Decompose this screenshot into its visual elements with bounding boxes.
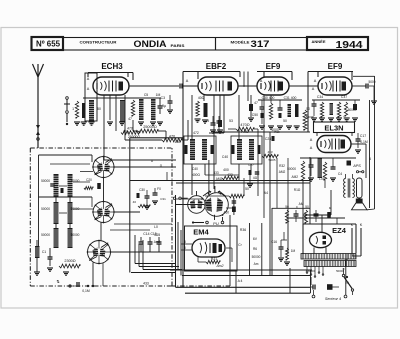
- svg-text:EF9: EF9: [266, 62, 281, 71]
- svg-text:50000: 50000: [348, 108, 357, 112]
- svg-text:50000: 50000: [71, 179, 80, 183]
- svg-text:A4: A4: [264, 191, 268, 195]
- svg-text:C50: C50: [252, 113, 258, 117]
- svg-text:A: A: [87, 77, 90, 81]
- svg-text:50000: 50000: [252, 255, 261, 259]
- svg-text:AM2: AM2: [291, 175, 298, 179]
- svg-text:50000: 50000: [41, 179, 50, 183]
- svg-text:2300Ω: 2300Ω: [64, 259, 75, 263]
- svg-text:R21: R21: [211, 257, 217, 261]
- svg-text:A: A: [260, 79, 263, 83]
- svg-text:EM4: EM4: [193, 228, 209, 237]
- svg-text:C20: C20: [86, 178, 92, 182]
- svg-text:472: 472: [193, 131, 199, 135]
- svg-text:50000: 50000: [287, 167, 296, 171]
- svg-text:9µ: 9µ: [162, 104, 166, 108]
- svg-text:1M: 1M: [291, 249, 296, 253]
- svg-text:C5: C5: [144, 93, 148, 97]
- svg-text:470Ω: 470Ω: [240, 123, 249, 127]
- svg-text:C4: C4: [338, 172, 342, 176]
- svg-text:50000: 50000: [41, 233, 50, 237]
- svg-text:Secteur 4: Secteur 4: [325, 297, 341, 301]
- svg-text:40: 40: [133, 200, 137, 204]
- svg-text:PU: PU: [213, 221, 219, 226]
- svg-text:C30 400: C30 400: [262, 96, 275, 100]
- svg-text:A: A: [310, 138, 313, 142]
- svg-text:PARIS: PARIS: [171, 44, 186, 48]
- svg-text:EL3N: EL3N: [324, 124, 343, 133]
- svg-text:ANNÉE: ANNÉE: [312, 39, 326, 44]
- svg-text:C31 400: C31 400: [284, 96, 297, 100]
- svg-text:C1: C1: [42, 250, 46, 254]
- svg-text:50000: 50000: [41, 207, 50, 211]
- svg-text:433: 433: [143, 282, 149, 286]
- svg-text:A: A: [310, 146, 313, 150]
- svg-text:CONSTRUCTEUR: CONSTRUCTEUR: [80, 41, 117, 45]
- svg-text:108: 108: [174, 140, 180, 144]
- svg-text:R36: R36: [240, 228, 246, 232]
- svg-text:53: 53: [205, 119, 209, 123]
- svg-text:C40: C40: [222, 155, 228, 159]
- svg-text:F0: F0: [157, 187, 161, 191]
- svg-text:20µ: 20µ: [123, 130, 129, 134]
- svg-text:R1Ω: R1Ω: [294, 188, 301, 192]
- svg-text:A 4: A 4: [238, 279, 243, 283]
- svg-text:433: 433: [227, 173, 233, 177]
- svg-text:C16: C16: [271, 240, 277, 244]
- svg-text:A: A: [312, 87, 315, 91]
- svg-text:50000: 50000: [71, 233, 80, 237]
- svg-text:AM2: AM2: [279, 170, 286, 174]
- svg-text:C37: C37: [341, 95, 347, 99]
- svg-text:A: A: [186, 79, 189, 83]
- svg-text:47: 47: [128, 117, 132, 121]
- svg-text:400: 400: [223, 168, 229, 172]
- svg-text:ECH3: ECH3: [101, 62, 123, 71]
- svg-text:6V: 6V: [253, 237, 258, 241]
- svg-text:25000Ω: 25000Ω: [143, 125, 157, 129]
- svg-text:Am: Am: [254, 262, 259, 266]
- svg-text:C17: C17: [360, 134, 366, 138]
- svg-text:4Ω: 4Ω: [253, 176, 258, 180]
- svg-text:1944: 1944: [336, 40, 364, 51]
- svg-text:MODÈLE: MODÈLE: [231, 40, 251, 45]
- svg-text:C34: C34: [317, 95, 323, 99]
- svg-text:EZ4: EZ4: [332, 226, 347, 235]
- svg-text:50: 50: [283, 119, 287, 123]
- svg-text:C31: C31: [160, 197, 166, 201]
- svg-text:R32: R32: [279, 164, 285, 168]
- svg-text:50: 50: [306, 107, 310, 111]
- svg-text:317: 317: [251, 39, 270, 50]
- svg-text:C3: C3: [161, 96, 165, 100]
- svg-text:K: K: [360, 223, 363, 227]
- svg-text:450: 450: [224, 211, 230, 215]
- svg-text:Am2: Am2: [154, 240, 161, 244]
- svg-text:47: 47: [254, 101, 258, 105]
- svg-text:Nº 655: Nº 655: [36, 39, 60, 49]
- svg-text:40Ω: 40Ω: [198, 96, 205, 100]
- svg-text:50: 50: [97, 107, 101, 111]
- svg-text:50: 50: [305, 205, 309, 209]
- svg-text:EF9: EF9: [328, 62, 343, 71]
- svg-text:Am2: Am2: [216, 264, 224, 268]
- svg-text:400Ω: 400Ω: [192, 173, 200, 177]
- svg-text:C30: C30: [139, 188, 145, 192]
- svg-text:APS: APS: [352, 164, 361, 168]
- svg-text:EBF2: EBF2: [206, 62, 227, 71]
- svg-text:C40: C40: [192, 167, 198, 171]
- svg-text:0,1M: 0,1M: [82, 289, 90, 293]
- svg-text:A: A: [314, 79, 317, 83]
- svg-text:50: 50: [245, 187, 249, 191]
- svg-text:AM: AM: [299, 202, 304, 206]
- svg-text:433: 433: [213, 171, 219, 175]
- svg-text:53: 53: [229, 119, 233, 123]
- svg-text:A: A: [87, 87, 90, 91]
- svg-text:R6: R6: [253, 247, 257, 251]
- svg-text:Int: Int: [345, 281, 349, 285]
- svg-text:4Ω5: 4Ω5: [154, 233, 160, 237]
- svg-text:L05: L05: [319, 177, 325, 181]
- svg-text:50: 50: [285, 205, 289, 209]
- svg-text:ONDIA: ONDIA: [134, 39, 168, 49]
- svg-text:AM2: AM2: [216, 177, 223, 181]
- svg-text:L0: L0: [154, 225, 158, 229]
- svg-text:1: 1: [72, 107, 74, 111]
- svg-text:0,1M: 0,1M: [360, 140, 368, 144]
